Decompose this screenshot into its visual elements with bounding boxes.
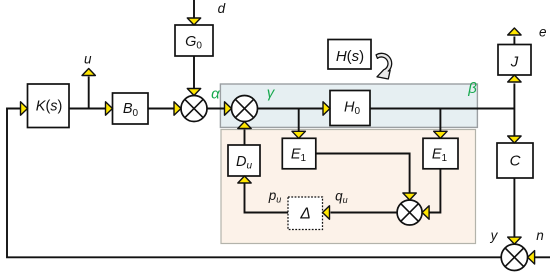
- svg-text:J: J: [510, 53, 519, 70]
- svg-text:Δ: Δ: [299, 206, 310, 223]
- svg-text:n: n: [536, 228, 544, 243]
- svg-text:α: α: [211, 85, 220, 102]
- svg-text:H(s): H(s): [336, 48, 364, 65]
- svg-text:e: e: [539, 25, 547, 40]
- svg-text:K(s): K(s): [36, 99, 63, 115]
- svg-text:β: β: [467, 80, 477, 97]
- svg-text:u: u: [84, 52, 92, 67]
- svg-text:d: d: [218, 1, 226, 16]
- svg-text:y: y: [490, 228, 499, 243]
- svg-text:C: C: [510, 153, 521, 170]
